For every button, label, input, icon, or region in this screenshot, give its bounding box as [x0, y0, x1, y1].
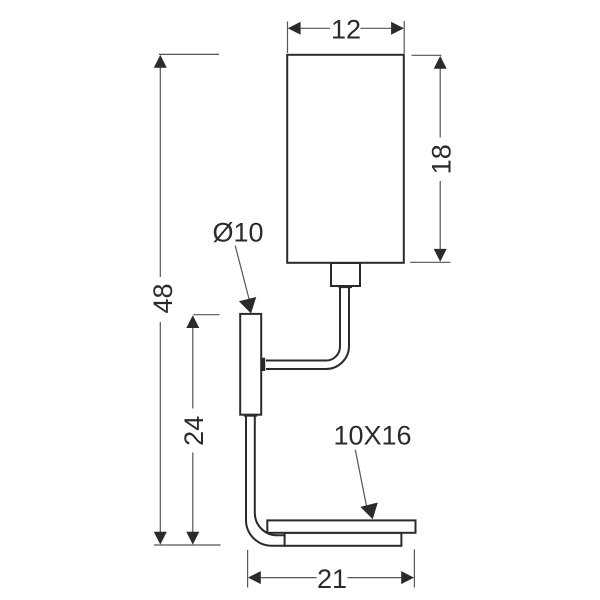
svg-text:Ø10: Ø10: [213, 217, 264, 247]
svg-text:10X16: 10X16: [334, 421, 412, 451]
svg-text:12: 12: [331, 15, 361, 45]
svg-text:48: 48: [148, 283, 178, 313]
svg-text:21: 21: [317, 564, 347, 594]
svg-text:18: 18: [426, 144, 456, 174]
svg-text:24: 24: [179, 416, 209, 446]
